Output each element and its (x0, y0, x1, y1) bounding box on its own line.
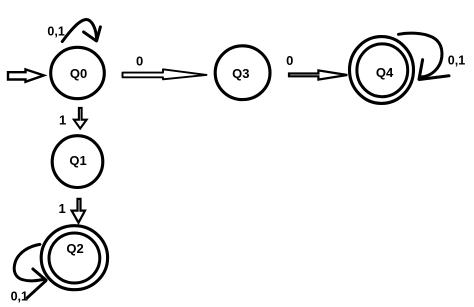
svg-text:Q3: Q3 (232, 66, 249, 81)
state Q3 (215, 46, 270, 100)
self-loop on Q2 (14, 244, 46, 297)
svg-text:0,1: 0,1 (47, 24, 64, 38)
state Q4 inner circle (357, 44, 408, 97)
transition arrow Q0 to Q3, input 0 (123, 69, 207, 79)
state Q0 (51, 47, 105, 98)
svg-text:0: 0 (286, 53, 293, 68)
svg-text:Q2: Q2 (66, 241, 83, 256)
start arrow (8, 69, 44, 81)
self-loop on Q4 (399, 33, 450, 79)
svg-text:Q0: Q0 (70, 66, 87, 81)
state Q1 (52, 136, 103, 188)
svg-text:1: 1 (59, 112, 66, 127)
state Q4 (accepting) outer circle (350, 37, 414, 104)
svg-text:0: 0 (136, 53, 143, 68)
svg-text:1: 1 (58, 201, 65, 216)
transition arrow Q0 to Q1, input 1 (74, 108, 87, 129)
transition arrow Q3 to Q4, input 0 (289, 70, 347, 79)
svg-text:0,1: 0,1 (11, 289, 28, 303)
state Q2 inner circle (49, 233, 100, 283)
svg-text:0,1: 0,1 (448, 54, 465, 68)
self-loop on Q0 (62, 19, 100, 41)
state Q2 (accepting) outer circle (41, 226, 107, 290)
transition arrow Q1 to Q2, input 1 (72, 199, 85, 223)
svg-text:Q4: Q4 (376, 65, 394, 80)
svg-text:Q1: Q1 (69, 153, 86, 168)
